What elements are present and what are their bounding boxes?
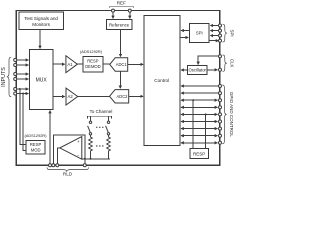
wire: RLD wrap line xyxy=(53,135,85,165)
svg-text:MOD: MOD xyxy=(31,147,41,152)
wire: MUX to A1 xyxy=(53,63,65,65)
svg-text:GPIO AND CONTROL: GPIO AND CONTROL xyxy=(229,92,234,138)
GPIO brace xyxy=(222,85,234,144)
wire: RLDINV pin drop xyxy=(84,159,86,165)
wire: RESP DEMOD to ADC1 xyxy=(103,63,110,65)
ADC1 block xyxy=(110,58,128,71)
CLK pin xyxy=(219,55,222,58)
svg-text:Control: Control xyxy=(154,78,169,83)
svg-text:−: − xyxy=(77,153,80,158)
input pin IN1P xyxy=(14,59,29,62)
RESP DEMOD block xyxy=(83,57,103,72)
ellipsis dots lower xyxy=(96,145,103,146)
gpio line 5 xyxy=(181,113,221,116)
gpio line 8 xyxy=(181,134,221,137)
SPI brace xyxy=(223,24,235,42)
REF bracket xyxy=(110,6,134,8)
wire: A2 to ADC2 xyxy=(78,96,110,98)
INPUTS brace xyxy=(1,57,11,96)
op-amp A2 xyxy=(66,88,78,105)
To Channel bracket xyxy=(88,116,112,118)
ellipsis dots upper xyxy=(96,127,103,128)
gpio line 7 xyxy=(181,127,221,130)
outer device box xyxy=(16,11,220,166)
svg-text:RLD: RLD xyxy=(63,171,73,176)
switch S2 xyxy=(106,116,110,135)
svg-text:REF: REF xyxy=(117,1,126,6)
wire: reference to ADC1 xyxy=(120,30,122,57)
bottom pin RLDREF xyxy=(52,164,55,167)
bottom pin RLD out xyxy=(56,164,59,167)
wire: control to SPI xyxy=(180,37,188,39)
wire: ADC1 to control xyxy=(128,63,143,65)
wire: ADC1 to ADC2 xyxy=(119,71,121,88)
SPI pin DIN xyxy=(210,34,221,37)
box: Test Signals and Monitors xyxy=(19,12,64,29)
svg-text:Test Signals and: Test Signals and xyxy=(24,16,58,21)
resistor R2 xyxy=(107,135,111,159)
svg-text:Monitors: Monitors xyxy=(32,22,50,27)
gpio line 4 xyxy=(181,106,221,109)
svg-text:(ADS1292R): (ADS1292R) xyxy=(24,133,47,138)
resistor R1 xyxy=(89,135,93,159)
input pin IN2P xyxy=(14,73,29,76)
Oscillator block xyxy=(188,66,208,75)
svg-text:SPI: SPI xyxy=(229,30,234,37)
wire: RLD to MUX riser xyxy=(49,111,51,165)
svg-text:INPUTS: INPUTS xyxy=(1,67,7,87)
svg-text:To Channel: To Channel xyxy=(90,109,113,114)
svg-text:ADC2: ADC2 xyxy=(117,94,129,99)
SPI pin CS xyxy=(210,24,221,27)
svg-text:A1: A1 xyxy=(67,62,73,67)
wire: RLD feedback rail xyxy=(82,158,110,160)
gpio line 1 xyxy=(181,85,221,88)
svg-text:+: + xyxy=(77,139,80,144)
svg-text:(ADS1292R): (ADS1292R) xyxy=(80,49,103,54)
CLK brace xyxy=(223,55,235,71)
wire: A1 to RESP DEMOD xyxy=(77,63,82,65)
wire: SPI to control xyxy=(181,30,189,32)
svg-text:DEMOD: DEMOD xyxy=(85,64,100,69)
label (ADS1292R) upper xyxy=(80,49,103,54)
SPI block xyxy=(189,24,209,43)
wire: resp riser 2 xyxy=(205,114,207,148)
wire: resp riser 1 xyxy=(192,100,194,148)
SPI pin DOUT xyxy=(209,39,221,42)
op-amp RLD xyxy=(60,137,82,160)
switch S1 xyxy=(88,116,92,135)
svg-text:Reference: Reference xyxy=(109,22,130,27)
gpio line 2 xyxy=(181,92,221,95)
svg-text:RESP: RESP xyxy=(193,151,205,156)
svg-text:A2: A2 xyxy=(67,94,73,99)
input pin IN2N xyxy=(14,78,29,81)
wire: resp mod riser 2 xyxy=(23,94,26,151)
wire: ADC2 to control xyxy=(129,95,143,97)
Control block xyxy=(144,16,180,146)
REF pin 2 xyxy=(128,9,131,18)
wire: oscillator to CLK out pin xyxy=(207,68,222,71)
wire: resp mod riser 1 xyxy=(20,89,26,145)
svg-text:MUX: MUX xyxy=(36,78,48,84)
RESP block xyxy=(190,149,209,159)
wire: CLK pin to oscillator xyxy=(198,56,218,64)
svg-text:CLK: CLK xyxy=(229,59,234,68)
SPI pin SCLK xyxy=(210,29,221,32)
svg-text:ADC1: ADC1 xyxy=(116,62,128,67)
ADC2 block xyxy=(110,90,129,103)
gpio line 6 xyxy=(181,120,221,123)
wire: RLD output xyxy=(57,148,60,165)
Reference block xyxy=(107,20,132,30)
input pin RESP modn line xyxy=(14,92,29,95)
MUX block xyxy=(30,50,53,110)
wire: oscillator to control xyxy=(181,69,187,71)
wire: MUX to A2 xyxy=(53,96,65,98)
bottom pin RLDINV xyxy=(83,164,86,167)
svg-text:Oscillator: Oscillator xyxy=(188,68,206,73)
gpio line 3 xyxy=(181,99,221,102)
REF pin 1 xyxy=(112,9,115,18)
label (ADS1292R) lower xyxy=(24,133,47,138)
wire: test signals to MUX xyxy=(39,30,41,49)
REF label xyxy=(117,1,126,6)
RESP MOD block xyxy=(26,141,45,154)
input pin IN1N xyxy=(14,64,29,67)
To Channel label xyxy=(90,109,113,114)
gpio line 9 xyxy=(181,141,221,144)
svg-text:SPI: SPI xyxy=(196,31,203,36)
op-amp A1 xyxy=(66,56,78,73)
input pin RESP modp line xyxy=(14,88,29,91)
bottom pin RLDOUT sense xyxy=(49,164,52,167)
RLD brace xyxy=(47,167,89,176)
